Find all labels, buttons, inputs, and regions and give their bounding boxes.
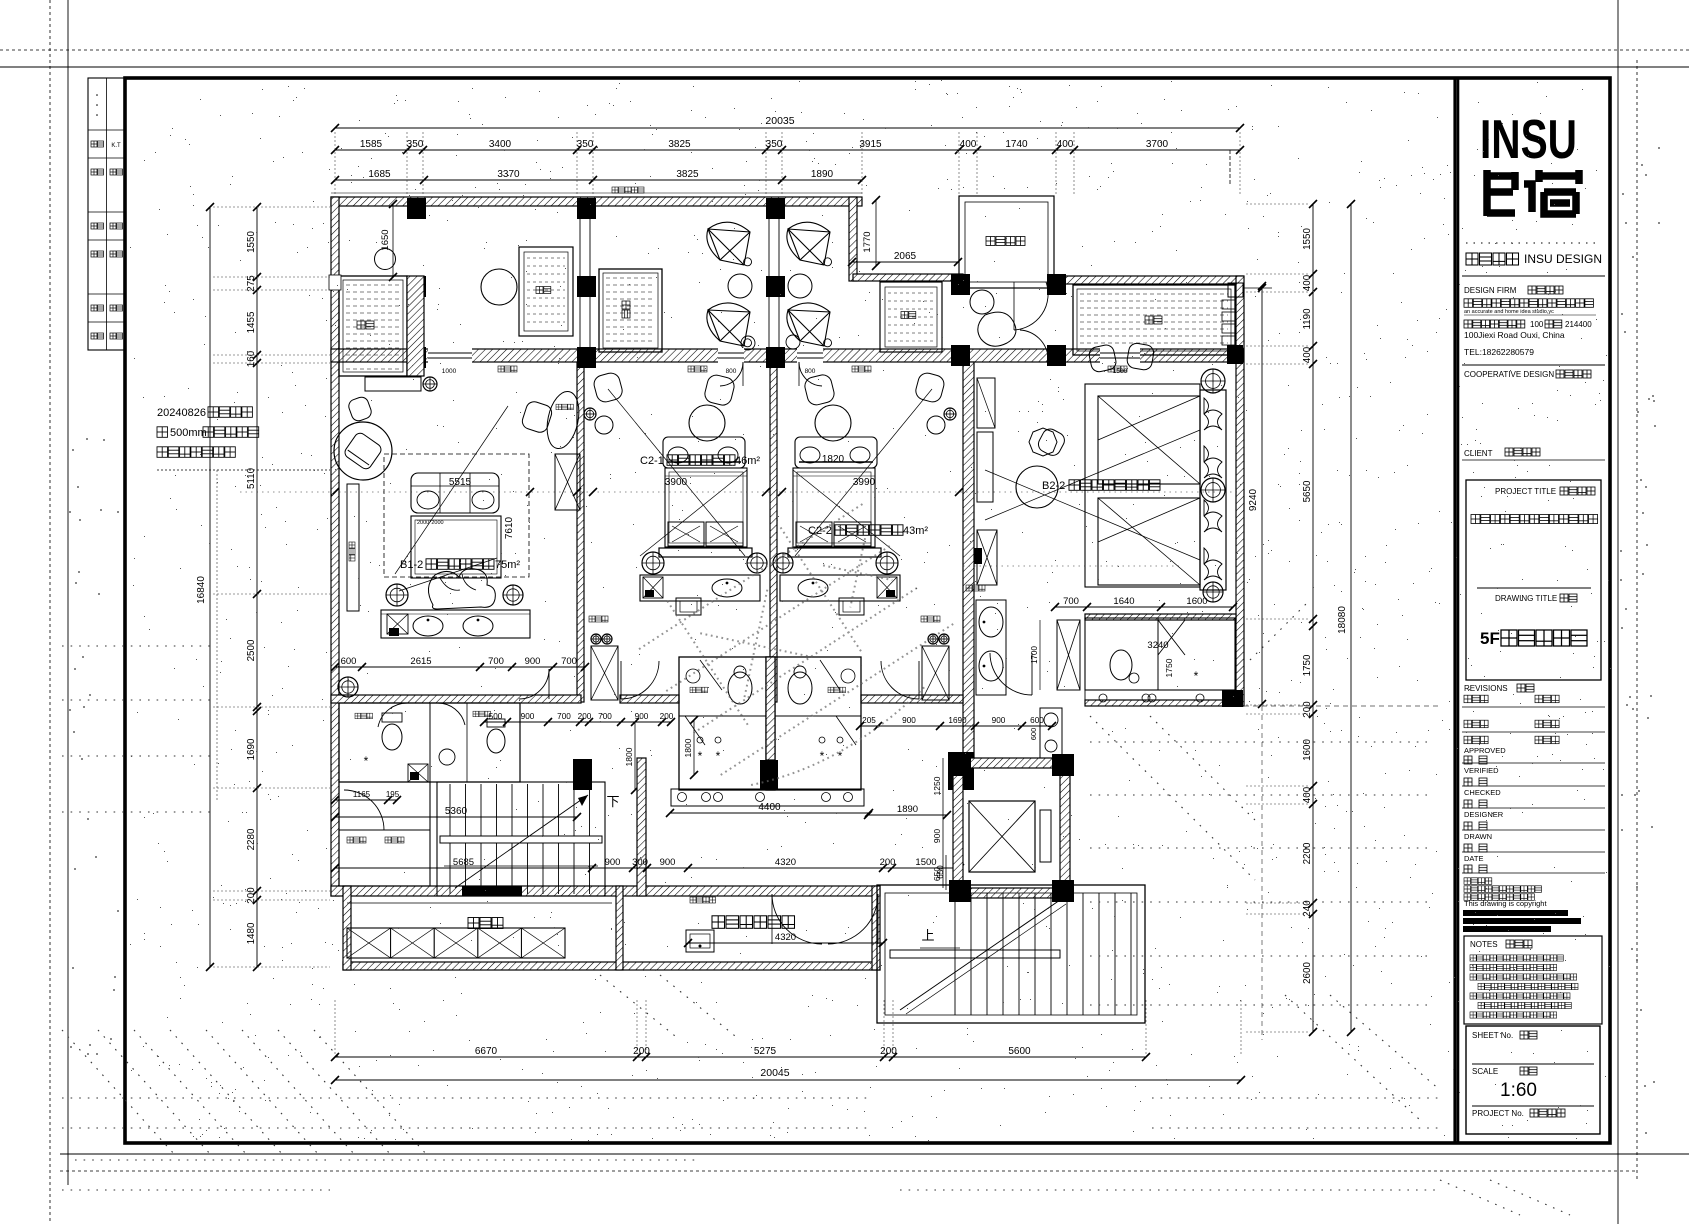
notes box bbox=[1464, 936, 1602, 1024]
svg-text:900: 900 bbox=[525, 656, 541, 667]
svg-text:2615: 2615 bbox=[410, 656, 431, 667]
SE stair enclosure outer bbox=[877, 885, 1145, 1023]
B2-2 desk strip left bbox=[977, 378, 995, 428]
B2-2 wall lamp top bbox=[1201, 369, 1225, 393]
svg-text:NOTES: NOTES bbox=[1470, 940, 1498, 949]
lobby vanity counter bbox=[1040, 708, 1062, 760]
svg-text:CHECKED: CHECKED bbox=[1464, 788, 1501, 797]
C2-1 headboard bbox=[659, 548, 752, 557]
B1-2 sofa bbox=[411, 473, 499, 513]
B1-2 rug dashed bbox=[384, 454, 529, 577]
svg-text:2600: 2600 bbox=[1302, 962, 1313, 984]
hatch dotted rows left of plan bbox=[62, 645, 210, 647]
B1-2 chaise lounge right bbox=[542, 389, 583, 452]
C2-2 leader diagonal bbox=[795, 389, 932, 556]
svg-text:200: 200 bbox=[246, 887, 257, 904]
hatch dotted diagonals bottom-left corner bbox=[62, 1030, 175, 1155]
sliding door gap B1-2 bbox=[428, 348, 472, 363]
SE stair break diagonal bbox=[900, 900, 1060, 1010]
svg-text:600: 600 bbox=[1030, 716, 1044, 725]
C2-2 full mirror label bbox=[921, 616, 927, 622]
corridor dim chain small bbox=[484, 721, 671, 723]
terrace shower circle bay1 bbox=[375, 249, 396, 270]
svg-text:COOPERATIVE DESIGN: COOPERATIVE DESIGN bbox=[1464, 370, 1554, 379]
terrace kite lounge bay2 upper bbox=[707, 222, 750, 265]
column grid B1 bbox=[407, 276, 426, 297]
linen room label bbox=[468, 918, 479, 929]
C2-2 vanity counter bbox=[780, 575, 900, 601]
svg-text:7610: 7610 bbox=[504, 516, 515, 539]
svg-text:DRAWING TITLE: DRAWING TITLE bbox=[1495, 594, 1557, 603]
B1-2 leader diagonal 1 bbox=[395, 406, 508, 574]
svg-text:100Jiexi Road Ouxi, China: 100Jiexi Road Ouxi, China bbox=[1464, 330, 1565, 340]
svg-text:5650: 5650 bbox=[1302, 480, 1313, 502]
B1-2 tv label vertical bbox=[349, 542, 355, 561]
terrace small pot bay2 bbox=[741, 336, 755, 350]
svg-text:1000: 1000 bbox=[442, 368, 457, 375]
svg-text:16840: 16840 bbox=[196, 576, 207, 604]
B2-2 mirror label horizontal bbox=[966, 585, 972, 591]
svg-text:800: 800 bbox=[726, 368, 737, 375]
bathroom black hatch box bbox=[408, 764, 428, 782]
svg-text:DESIGN FIRM: DESIGN FIRM bbox=[1464, 286, 1517, 295]
svg-text:400: 400 bbox=[960, 139, 977, 150]
C2-2 wardrobe bbox=[922, 646, 949, 700]
stair landing band bbox=[440, 836, 602, 843]
bathroom2 toilet bbox=[487, 729, 505, 753]
C2-1 full mirror label bbox=[589, 616, 595, 622]
svg-text:1800: 1800 bbox=[624, 747, 634, 766]
wall top right wing bbox=[1051, 276, 1243, 284]
column grid A3 bbox=[766, 198, 785, 219]
svg-text:5360: 5360 bbox=[445, 806, 468, 817]
C2-1 wardrobe lamps bbox=[591, 634, 601, 644]
svg-text:4320: 4320 bbox=[775, 857, 796, 868]
svg-text:1480: 1480 bbox=[246, 922, 257, 944]
sliding door gap C2-1 terrace bbox=[718, 348, 744, 363]
column grid C1 bbox=[407, 347, 426, 368]
B2-2 chair near table bbox=[1036, 426, 1068, 458]
svg-text:CLIENT: CLIENT bbox=[1464, 449, 1493, 458]
B2-2 wall lamp bottom bbox=[1203, 582, 1223, 602]
svg-text:3900: 3900 bbox=[665, 477, 688, 488]
svg-text:2200: 2200 bbox=[1302, 842, 1313, 864]
svg-text:K.T: K.T bbox=[111, 143, 121, 149]
sliding door gap C2-2 terrace bbox=[797, 348, 823, 363]
svg-text:1890: 1890 bbox=[811, 169, 834, 180]
svg-text:600: 600 bbox=[1029, 728, 1038, 741]
stair enclosure bbox=[437, 782, 605, 896]
svg-text:400: 400 bbox=[1057, 139, 1074, 150]
B2-2 mattress lower bbox=[1098, 498, 1200, 585]
B1-2 vanity basin left bbox=[413, 616, 443, 636]
sheet crop line left outer bbox=[49, 0, 51, 1224]
dim bottom chain bbox=[335, 1056, 1146, 1058]
svg-text:300: 300 bbox=[632, 857, 648, 868]
firm address cn bbox=[1464, 320, 1472, 328]
svg-text:600: 600 bbox=[341, 656, 357, 667]
studio name line bbox=[1466, 253, 1478, 265]
balcony terrace door arc bbox=[1020, 330, 1048, 357]
corridor 1800 dim right bbox=[693, 720, 695, 775]
dim left total 16840 bbox=[209, 207, 211, 967]
hatch dotted rows right of plan bbox=[1090, 741, 1430, 743]
C2-1 side table bbox=[595, 416, 613, 434]
wall left exterior bbox=[331, 197, 339, 896]
equipment room door arcs bbox=[772, 894, 822, 944]
B1-2 fireplace chair bbox=[343, 431, 384, 471]
terrace table circle bay2 bbox=[728, 274, 752, 298]
sheet crop line right outer bbox=[1636, 60, 1638, 1180]
hatch dots bottom-right sheet corner bbox=[1440, 1180, 1520, 1215]
svg-text:1890: 1890 bbox=[897, 804, 918, 815]
linen room xbox cabinet bbox=[347, 928, 565, 958]
svg-text:20045: 20045 bbox=[760, 1067, 789, 1079]
svg-text:3400: 3400 bbox=[489, 139, 512, 150]
B1-2 nightstand lamp left bbox=[386, 584, 408, 606]
corridor strip south with lights bbox=[671, 789, 864, 806]
service rooms lower-left walls bbox=[339, 782, 430, 886]
dim extension horizontals left bbox=[213, 206, 330, 208]
pool top-left bbox=[339, 276, 407, 376]
C2-1 nightstand left bbox=[642, 552, 664, 574]
C2-1 bed bbox=[665, 468, 747, 547]
hatch dotted diagonals below equipment room bbox=[600, 975, 680, 1040]
svg-text:700: 700 bbox=[561, 656, 577, 667]
svg-text:1600: 1600 bbox=[1302, 739, 1313, 761]
column grid B5 bbox=[1047, 274, 1066, 295]
elevator dim 650 vertical bbox=[945, 855, 947, 890]
dotted separator under logo bbox=[1466, 242, 1600, 244]
firm chinese name bbox=[1464, 299, 1473, 308]
wall bottom left wing bbox=[331, 886, 880, 896]
C2-1 vanity counter bbox=[640, 575, 760, 601]
terrace small pot bay3 bbox=[786, 335, 800, 349]
dim 1770 vertical bbox=[875, 200, 877, 266]
redaction bar 3 bbox=[1463, 926, 1551, 932]
project title box bbox=[1466, 480, 1601, 680]
revision note underline dotted bbox=[157, 469, 330, 471]
svg-text:INSU DESIGN: INSU DESIGN bbox=[1524, 252, 1602, 266]
svg-text:214400: 214400 bbox=[1565, 320, 1592, 329]
B2-2 left wall vanity bbox=[976, 600, 1006, 695]
B2-2 round table bbox=[1016, 466, 1058, 508]
svg-text:1750: 1750 bbox=[1164, 658, 1174, 677]
C2-1 wardrobe bbox=[591, 646, 618, 700]
svg-text:1770: 1770 bbox=[862, 231, 873, 252]
terrace kite lounge bay3 upper bbox=[787, 222, 830, 265]
pool nook wall bbox=[407, 276, 424, 376]
svg-text:350: 350 bbox=[766, 139, 783, 150]
svg-text:VERIFIED: VERIFIED bbox=[1464, 766, 1499, 775]
pod C2-1 inner door diagonal bbox=[700, 660, 722, 690]
B2-2 black wall chunk SE bbox=[1222, 690, 1243, 707]
mid rule bbox=[1462, 459, 1605, 461]
column grid C6 bbox=[1227, 345, 1243, 364]
wall bath B2-2 band top bbox=[1085, 614, 1236, 620]
stair dim 5360 bbox=[335, 816, 577, 818]
hatch dotted diagonal top right bbox=[1250, 600, 1310, 660]
svg-text:SHEET No.: SHEET No. bbox=[1472, 1031, 1513, 1040]
svg-text:20035: 20035 bbox=[765, 115, 794, 127]
B2-2 octagon stool bbox=[1029, 428, 1057, 456]
C2-1 bath label bbox=[690, 687, 696, 693]
bathroom1 door arc bbox=[378, 703, 408, 727]
logo yinsu seal glyphs bbox=[1487, 170, 1579, 216]
dim top total 20035 bbox=[335, 127, 1240, 129]
svg-text:REVISIONS: REVISIONS bbox=[1464, 684, 1508, 693]
terrace partition bay2-bay3 bbox=[768, 217, 770, 347]
title block divider bbox=[1453, 78, 1456, 1143]
column grid B2 bbox=[577, 276, 596, 297]
wall corridor north mid segment bbox=[620, 695, 679, 703]
wall step horizontal bbox=[853, 274, 963, 281]
pool right wing label bbox=[1145, 316, 1153, 324]
viewing balcony label bbox=[986, 237, 995, 246]
svg-text:2065: 2065 bbox=[894, 251, 917, 262]
pool bay2 label bbox=[622, 301, 630, 318]
C2-1 bath shower head bbox=[697, 737, 703, 743]
svg-text:1650: 1650 bbox=[380, 229, 391, 250]
svg-text:4400: 4400 bbox=[758, 802, 781, 813]
svg-text:100: 100 bbox=[1530, 320, 1544, 329]
svg-text:200: 200 bbox=[1302, 701, 1313, 718]
svg-text:200: 200 bbox=[660, 712, 674, 721]
svg-text:DATE: DATE bbox=[1464, 854, 1483, 863]
svg-text:1820: 1820 bbox=[822, 454, 845, 465]
service rooms labels bbox=[347, 837, 353, 843]
B2-2 bed platform bbox=[1085, 384, 1200, 587]
B2-2 dresser bbox=[977, 530, 997, 585]
interior dim line across rooms bbox=[240, 491, 1240, 493]
dim extension verticals top bbox=[334, 132, 336, 196]
svg-text:200: 200 bbox=[633, 1046, 650, 1057]
C2-2 nightstand right bbox=[876, 552, 898, 574]
terrace kite lounge bay2 lower bbox=[707, 303, 750, 346]
revision row 3 bbox=[1464, 736, 1472, 744]
svg-text:46m²: 46m² bbox=[735, 455, 760, 467]
svg-text:900: 900 bbox=[521, 712, 535, 721]
right wall stub line bbox=[1244, 287, 1272, 289]
copyright lines bbox=[1464, 878, 1471, 885]
dim top row2 segments bbox=[335, 179, 862, 181]
wall bath B2-2 band bottom bbox=[1085, 700, 1236, 706]
svg-text:PROJECT No.: PROJECT No. bbox=[1472, 1109, 1524, 1118]
column grid B4 bbox=[951, 274, 970, 295]
hatch dotted diagonals right of plan bbox=[1090, 716, 1255, 880]
B1-2 tv cabinet strip bbox=[347, 484, 359, 611]
svg-text:195: 195 bbox=[386, 790, 400, 799]
C2-2 bench at bed foot bbox=[795, 437, 877, 468]
C2-1 bath toilet bbox=[728, 672, 752, 704]
pool bay2 bbox=[599, 269, 662, 352]
svg-text:2500: 2500 bbox=[246, 639, 257, 661]
wall room divider B2-2 left bbox=[963, 362, 974, 758]
corridor black chunk divider1 bbox=[573, 759, 592, 790]
C2-2 bed bbox=[793, 468, 875, 547]
elevator dim 1250 bbox=[942, 758, 944, 812]
svg-text:B1-2: B1-2 bbox=[400, 559, 423, 571]
curtain wall tiny label top bbox=[612, 187, 618, 193]
C2-1 round table bbox=[689, 405, 725, 441]
B2-2 bath wardrobe bbox=[1057, 620, 1080, 690]
dim 2065 bbox=[852, 261, 958, 263]
svg-text:1690: 1690 bbox=[948, 716, 967, 725]
svg-text:INSU: INSU bbox=[1480, 108, 1577, 170]
C2-2 round table bbox=[815, 405, 851, 441]
svg-text:1750: 1750 bbox=[1302, 654, 1313, 676]
terrace tub circle bay1 bbox=[481, 269, 517, 305]
column grid A2 bbox=[577, 198, 596, 219]
svg-text:700: 700 bbox=[557, 712, 571, 721]
stair rail center bbox=[444, 865, 598, 867]
B2-2 door arc bbox=[990, 653, 1032, 695]
svg-text:700: 700 bbox=[1063, 596, 1079, 607]
svg-text:3990: 3990 bbox=[853, 477, 876, 488]
svg-text:1800: 1800 bbox=[683, 738, 693, 757]
column grid C3 bbox=[766, 347, 785, 368]
svg-text:1585: 1585 bbox=[360, 139, 383, 150]
dim bottom extension stubs bbox=[334, 1000, 336, 1054]
left wall window break bbox=[329, 275, 341, 290]
B1-2 desk at terrace wall bbox=[365, 377, 421, 391]
B1-2 nightstand lamp right bbox=[503, 585, 523, 605]
column grid C2 bbox=[577, 347, 596, 368]
svg-text:900: 900 bbox=[992, 716, 1006, 725]
wall bottom band right bbox=[872, 886, 880, 970]
C2-1 bench at bed foot bbox=[663, 437, 745, 468]
svg-text:*: * bbox=[698, 749, 703, 763]
dim left chain bbox=[256, 207, 258, 967]
B1-2 armchair top-left bbox=[347, 395, 373, 423]
svg-text:900: 900 bbox=[660, 857, 676, 868]
pod divider wall bbox=[766, 657, 775, 760]
SE stair treads bbox=[954, 893, 956, 1015]
terrace table circle bay3 bbox=[788, 274, 812, 298]
bathroom2 door arc bbox=[437, 703, 465, 725]
svg-text:1690: 1690 bbox=[246, 738, 257, 760]
redaction bar 2 bbox=[1463, 918, 1581, 924]
svg-text:DRAWN: DRAWN bbox=[1464, 832, 1492, 841]
svg-text:700: 700 bbox=[488, 656, 504, 667]
project name glyphs bbox=[1471, 515, 1480, 524]
revision row 1 bbox=[1464, 695, 1472, 703]
svg-text:700: 700 bbox=[598, 712, 612, 721]
svg-text:3370: 3370 bbox=[497, 169, 520, 180]
wall right exterior bbox=[1236, 276, 1244, 706]
sheet crop line bottom inner bbox=[60, 1153, 1689, 1155]
svg-text:*: * bbox=[364, 754, 369, 768]
viewing balcony walls bbox=[959, 196, 1054, 288]
stair dim 5685 bbox=[335, 867, 960, 869]
terrace paving edge top bbox=[331, 192, 862, 194]
floor hatch small box bbox=[686, 930, 714, 952]
C2-1 armchair left bbox=[592, 371, 624, 404]
viewing balcony door arc bbox=[1014, 282, 1048, 330]
svg-text:B2-2: B2-2 bbox=[1042, 480, 1065, 492]
B2-2 dim 1700 vertical bbox=[1039, 620, 1041, 690]
svg-text:This drawing is copyright: This drawing is copyright bbox=[1464, 899, 1547, 908]
svg-text:TEL:18262280579: TEL:18262280579 bbox=[1464, 347, 1534, 357]
svg-text:6670: 6670 bbox=[475, 1046, 498, 1057]
svg-text:5515: 5515 bbox=[449, 477, 472, 488]
column grid A1 bbox=[407, 198, 426, 219]
wall bottom band south bbox=[343, 962, 880, 970]
stair treads lower flight bbox=[449, 843, 451, 894]
B1-2 vanity basin right bbox=[463, 616, 493, 636]
svg-text:1:60: 1:60 bbox=[1500, 1080, 1537, 1101]
C2-2 bath label bbox=[828, 687, 834, 693]
B2-2 bath walls bbox=[1085, 618, 1235, 690]
hatch dotted rows bottom bbox=[340, 1097, 872, 1099]
pool right wing bbox=[1073, 285, 1235, 355]
wall top left wing bbox=[331, 197, 862, 206]
scatter dots right margin bbox=[1632, 256, 1634, 258]
B2-2 mattress upper bbox=[1098, 396, 1200, 484]
B1-2 floor drain bbox=[338, 677, 358, 697]
lobby dim chain right bbox=[860, 725, 1052, 727]
C2-1 armchair right bbox=[703, 373, 736, 407]
svg-text:3825: 3825 bbox=[668, 139, 691, 150]
elevator door slot bbox=[1040, 810, 1051, 862]
sheet crop line bottom outer bbox=[60, 1170, 1637, 1172]
C2-2 vanity washer box bbox=[877, 577, 897, 598]
dim right total 18080 bbox=[1350, 204, 1352, 1032]
B2-2 dotted interior line bbox=[963, 565, 1180, 567]
svg-text:*: * bbox=[716, 749, 721, 763]
svg-text:18080: 18080 bbox=[1337, 606, 1348, 634]
C2-2 bath shower head bbox=[819, 737, 825, 743]
sheet crop line right inner bbox=[1617, 0, 1619, 1224]
svg-text:PROJECT TITLE: PROJECT TITLE bbox=[1495, 487, 1556, 496]
svg-text:1685: 1685 bbox=[368, 169, 391, 180]
svg-text:DESIGNER: DESIGNER bbox=[1464, 810, 1504, 819]
equipment room inner wall bbox=[879, 894, 881, 962]
svg-text:SCALE: SCALE bbox=[1472, 1067, 1498, 1076]
C2-1 vanity washer box bbox=[643, 577, 663, 598]
svg-text:20240826: 20240826 bbox=[157, 407, 206, 419]
equipment dim 4320 bbox=[688, 942, 883, 944]
wall room divider C1 left bbox=[577, 362, 584, 702]
service room door arc bbox=[344, 790, 384, 830]
svg-text:400: 400 bbox=[1302, 274, 1313, 291]
B1-2 entry door arc bbox=[519, 669, 549, 699]
sliding door gap B2-2 bbox=[1100, 348, 1140, 363]
bathroom2 label bbox=[473, 711, 479, 717]
B2-2 black accent bbox=[974, 548, 982, 564]
B2-2 wall lamp middle bbox=[1201, 478, 1225, 502]
pool top-left label bbox=[357, 321, 365, 329]
svg-text:43m²: 43m² bbox=[903, 525, 928, 537]
redaction bar 1 bbox=[1463, 910, 1568, 916]
wall corridor north left wing bbox=[331, 695, 581, 703]
svg-text:下: 下 bbox=[606, 794, 619, 809]
svg-text:APPROVED: APPROVED bbox=[1464, 746, 1506, 755]
elevator dim 1890 bbox=[868, 814, 947, 816]
svg-text:200: 200 bbox=[880, 857, 896, 868]
dim bottom total 20045 bbox=[335, 1079, 1241, 1081]
wall main horizontal bbox=[331, 349, 1243, 362]
column grid C4 bbox=[951, 345, 970, 366]
svg-text:C2-1: C2-1 bbox=[640, 455, 664, 467]
svg-text:*: * bbox=[1194, 669, 1199, 683]
bathroom lower-left walls bbox=[339, 703, 520, 782]
svg-text:275: 275 bbox=[246, 275, 257, 292]
svg-text:900: 900 bbox=[605, 857, 621, 868]
steam room bay1 bbox=[519, 247, 573, 336]
svg-text:500mm: 500mm bbox=[170, 427, 207, 439]
svg-text:5F: 5F bbox=[1480, 629, 1500, 648]
